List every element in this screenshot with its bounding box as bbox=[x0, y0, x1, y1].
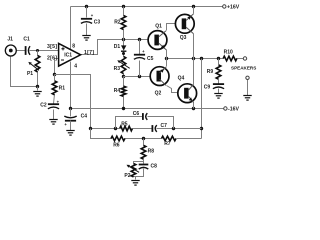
label R10 bbox=[224, 50, 233, 56]
wire output line bbox=[167, 58, 224, 60]
wire C6 branch left riser bbox=[116, 117, 143, 129]
wire Q2 emitter to output bbox=[166, 59, 168, 67]
wire node B line to Q2 base bbox=[124, 76, 151, 78]
capacitor C7 bbox=[152, 125, 156, 132]
ground C4 bbox=[66, 131, 74, 136]
wire R8 bottom node bbox=[134, 160, 144, 164]
resistor R9 bbox=[216, 65, 221, 79]
wire J1 shell to ground bbox=[11, 57, 38, 87]
label Q3 bbox=[180, 35, 187, 41]
svg-text:R4: R4 bbox=[114, 88, 121, 94]
trimmer P2 bbox=[127, 164, 140, 177]
wire R9 top lead bbox=[218, 59, 220, 65]
label R6 bbox=[113, 143, 120, 149]
wire R10 to speaker terminal bbox=[237, 58, 244, 60]
wire Q2 collector to Q4 base bbox=[167, 86, 178, 93]
wire C1 to op-amp pin 3 bbox=[30, 50, 59, 52]
wire op-amp output bbox=[81, 40, 149, 55]
node junction -16V rail / C4 / pin4 bbox=[69, 107, 72, 110]
wire C4 bottom stem bbox=[70, 121, 72, 131]
label Q1 bbox=[155, 24, 162, 30]
wire R6 R7 line bbox=[91, 129, 112, 139]
wire C5 top stem bbox=[139, 40, 141, 55]
transistor Q4 bbox=[178, 84, 197, 103]
wire R2 bottom lead bbox=[123, 30, 125, 40]
svg-text:R9: R9 bbox=[207, 69, 214, 75]
wire feedback tap from output bbox=[201, 59, 203, 139]
wire C9 to ground bbox=[218, 89, 220, 94]
svg-text:D1: D1 bbox=[114, 44, 121, 50]
label SPEAKERS bbox=[231, 65, 256, 70]
wire speaker return terminal to ground bbox=[247, 80, 249, 96]
svg-text:R10: R10 bbox=[224, 50, 233, 56]
node inverting input junction bbox=[53, 73, 56, 76]
svg-text:Q1: Q1 bbox=[155, 24, 162, 30]
resistor R1 bbox=[52, 81, 57, 95]
ground P2/C8 bbox=[131, 181, 139, 186]
wire R1 to C2 bbox=[54, 95, 55, 104]
wire P1 bottom lead bbox=[37, 72, 39, 87]
wire C7 to feedback tap bbox=[157, 128, 202, 130]
trimmer R3 bbox=[117, 56, 129, 73]
transistor Q2 bbox=[150, 67, 169, 86]
svg-text:R5: R5 bbox=[121, 121, 128, 127]
wire feedback from inverting node bbox=[55, 75, 91, 129]
node R8 top junction bbox=[142, 137, 145, 140]
svg-text:C5: C5 bbox=[147, 56, 154, 62]
node +16V rail / R2 junction bbox=[122, 5, 125, 8]
wire V+ line to op-amp pin 8 bbox=[70, 7, 72, 51]
terminal speaker return bbox=[246, 76, 249, 79]
wire D1 cathode to R3 bbox=[123, 52, 125, 57]
terminal speaker + bbox=[243, 57, 246, 60]
capacitor C4 bbox=[64, 116, 76, 127]
label C5 bbox=[147, 56, 154, 62]
capacitor C9 bbox=[213, 84, 224, 89]
wire C3 top stem bbox=[86, 7, 88, 18]
wire between R5 and C7 bbox=[133, 128, 153, 130]
svg-text:R8: R8 bbox=[148, 149, 155, 155]
node feedback tap / C7 line junction bbox=[200, 127, 203, 130]
svg-text:C3: C3 bbox=[94, 19, 101, 25]
wire Q3 collector to output bbox=[193, 34, 195, 59]
wire op-amp pin 4 to -16V rail bbox=[70, 62, 72, 109]
label R9 bbox=[207, 69, 214, 75]
terminal -16V bbox=[224, 107, 227, 110]
label C3 bbox=[94, 19, 101, 25]
wire R9 to C9 bbox=[218, 80, 220, 84]
resistor R6 bbox=[111, 136, 125, 141]
diode D1 bbox=[121, 45, 126, 51]
wire R1 top lead bbox=[54, 75, 56, 81]
svg-text:C8: C8 bbox=[151, 163, 158, 169]
svg-text:R1: R1 bbox=[59, 86, 66, 92]
label C1 bbox=[23, 37, 30, 43]
label C2 bbox=[40, 103, 47, 109]
label pin 1[7] bbox=[84, 50, 94, 56]
resistor R10 bbox=[223, 56, 237, 61]
potentiometer P1 bbox=[28, 55, 40, 72]
wire Q3 emitter to +16V rail bbox=[193, 7, 195, 14]
svg-text:P2: P2 bbox=[124, 173, 130, 179]
label pin 3[5] bbox=[47, 44, 57, 50]
wire input ground stem bbox=[37, 87, 39, 91]
wire D1 anode lead bbox=[123, 40, 125, 46]
wire J1 to C1 bbox=[17, 50, 26, 52]
wire top +16V rail bbox=[71, 6, 223, 8]
wire between R6 and R7 bbox=[125, 138, 162, 140]
label C8 bbox=[151, 163, 158, 169]
svg-text:R6: R6 bbox=[113, 143, 120, 149]
svg-text:R2: R2 bbox=[114, 20, 121, 26]
wire R7 to feedback tap bbox=[177, 138, 202, 140]
svg-text:-16V: -16V bbox=[228, 107, 239, 113]
wire Q1 emitter to output bbox=[166, 50, 168, 59]
svg-text:Q4: Q4 bbox=[178, 76, 185, 82]
node output / Q1 Q2 emitters bbox=[165, 57, 168, 60]
label C4 bbox=[81, 113, 88, 119]
svg-text:IC1: IC1 bbox=[64, 53, 72, 59]
capacitor C8 bbox=[139, 165, 149, 170]
ground C3 bbox=[82, 36, 90, 41]
svg-text:Q3: Q3 bbox=[180, 35, 187, 41]
svg-text:1[7]: 1[7] bbox=[84, 50, 94, 56]
wire lower -16V rail bbox=[71, 108, 224, 110]
svg-text:2[6]: 2[6] bbox=[47, 56, 57, 62]
svg-text:C6: C6 bbox=[133, 111, 140, 117]
label Q4 bbox=[178, 76, 185, 82]
svg-text:C7: C7 bbox=[161, 123, 168, 129]
svg-text:8: 8 bbox=[72, 43, 75, 49]
label R5 bbox=[121, 121, 128, 127]
node node B / C5 bottom junction bbox=[138, 75, 141, 78]
label C9 bbox=[204, 84, 211, 90]
node -16V rail / Q4 collector junction bbox=[192, 107, 195, 110]
node P1 top junction bbox=[36, 49, 39, 52]
node -16V rail / R4 junction bbox=[122, 107, 125, 110]
terminal +16V bbox=[223, 5, 226, 8]
wire C6 branch right riser bbox=[148, 117, 174, 129]
wire ground stem P2 C8 bbox=[135, 177, 137, 180]
label D1 bbox=[114, 44, 121, 50]
svg-text:C1: C1 bbox=[23, 37, 30, 43]
svg-text:R7: R7 bbox=[164, 141, 171, 147]
node +16V rail / Q3 collector junction bbox=[192, 5, 195, 8]
wire P1 top lead bbox=[37, 51, 39, 56]
ground input/P1 bbox=[33, 92, 41, 97]
node output / Q3 Q4 junction bbox=[192, 57, 195, 60]
wire Q4 emitter to output bbox=[193, 59, 195, 85]
wire inverting riser bbox=[54, 59, 56, 75]
capacitor C6 bbox=[143, 113, 147, 120]
ground C9 bbox=[214, 94, 222, 99]
svg-text:C4: C4 bbox=[81, 113, 88, 119]
node C6 left riser junction bbox=[114, 127, 117, 130]
node output / feedback tap bbox=[200, 57, 203, 60]
label IC1 bbox=[64, 53, 72, 59]
node feedback left junction bbox=[89, 127, 92, 130]
svg-text:C9: C9 bbox=[204, 84, 211, 90]
wire R3 bottom lead bbox=[123, 74, 125, 77]
node bias line / C5 junction bbox=[138, 38, 141, 41]
wire C5 bottom stem bbox=[139, 61, 141, 77]
svg-text:Q2: Q2 bbox=[155, 91, 162, 97]
svg-text:4: 4 bbox=[74, 63, 77, 69]
label Q2 bbox=[155, 91, 162, 97]
label R2 bbox=[114, 20, 121, 26]
label +16V bbox=[227, 5, 240, 11]
node C6 right riser junction bbox=[172, 127, 175, 130]
wire C8 bottom stem bbox=[136, 169, 144, 177]
capacitor C5 bbox=[134, 49, 145, 59]
svg-text:3[5]: 3[5] bbox=[47, 44, 57, 50]
node +16V rail / C3 junction bbox=[85, 5, 88, 8]
node bias node B / R3 / R4 junction bbox=[122, 75, 125, 78]
label pin 2[6] bbox=[47, 56, 57, 62]
wire Q4 collector to -16V rail bbox=[193, 103, 195, 109]
resistor R4 bbox=[121, 86, 126, 96]
resistor R7 bbox=[162, 136, 177, 141]
transistor Q1 bbox=[148, 31, 167, 50]
capacitor C3 bbox=[81, 13, 94, 23]
svg-text:C2: C2 bbox=[40, 103, 47, 109]
label pin 4 bbox=[74, 63, 77, 69]
label P1 bbox=[27, 71, 33, 77]
label -16V bbox=[228, 107, 239, 113]
node D1 cathode blob bbox=[122, 52, 125, 55]
label P2 bbox=[124, 173, 130, 179]
svg-text:P1: P1 bbox=[27, 71, 33, 77]
wire R8 top lead bbox=[143, 139, 145, 146]
connector J1 input jack bbox=[5, 45, 16, 56]
wire lower feedback line R5 C7 bbox=[91, 128, 120, 130]
wire C8 top stem bbox=[143, 162, 145, 164]
label pin 8 bbox=[72, 43, 75, 49]
label C7 bbox=[161, 123, 168, 129]
label R3 bbox=[114, 66, 121, 72]
wire R4 top lead bbox=[123, 77, 125, 87]
ground C2 bbox=[49, 120, 57, 125]
capacitor C1 bbox=[26, 46, 30, 55]
svg-text:J1: J1 bbox=[7, 37, 13, 43]
wire R2 top lead bbox=[123, 7, 125, 16]
svg-text:+16V: +16V bbox=[227, 5, 240, 11]
wire C3 bottom stem bbox=[86, 24, 88, 36]
svg-text:SPEAKERS: SPEAKERS bbox=[231, 65, 256, 70]
label R4 bbox=[114, 88, 121, 94]
op-amp IC1 bbox=[59, 43, 81, 66]
capacitor C2 bbox=[48, 99, 60, 109]
ground speaker return bbox=[243, 96, 251, 101]
node bias line / R2 / D1 junction bbox=[122, 38, 125, 41]
resistor R5 bbox=[120, 126, 133, 131]
label C6 bbox=[133, 111, 140, 117]
wire Q1 collector to Q3 base bbox=[167, 24, 176, 31]
svg-text:R3: R3 bbox=[114, 66, 121, 72]
label R1 bbox=[59, 86, 66, 92]
resistor R2 bbox=[121, 15, 126, 29]
transistor Q3 bbox=[175, 14, 194, 34]
wire C4 top stem bbox=[70, 109, 72, 117]
node output / R9 junction bbox=[217, 57, 220, 60]
wire op-amp pin 2 stub bbox=[55, 58, 59, 60]
wire R4 bottom lead bbox=[123, 97, 125, 109]
node input ground junction bbox=[36, 85, 39, 88]
resistor R8 bbox=[141, 145, 146, 159]
label R8 bbox=[148, 149, 155, 155]
wire P2 bottom lead bbox=[134, 176, 136, 178]
wire C2 to ground bbox=[53, 110, 55, 120]
label J1 bbox=[7, 37, 13, 43]
label R7 bbox=[164, 141, 171, 147]
